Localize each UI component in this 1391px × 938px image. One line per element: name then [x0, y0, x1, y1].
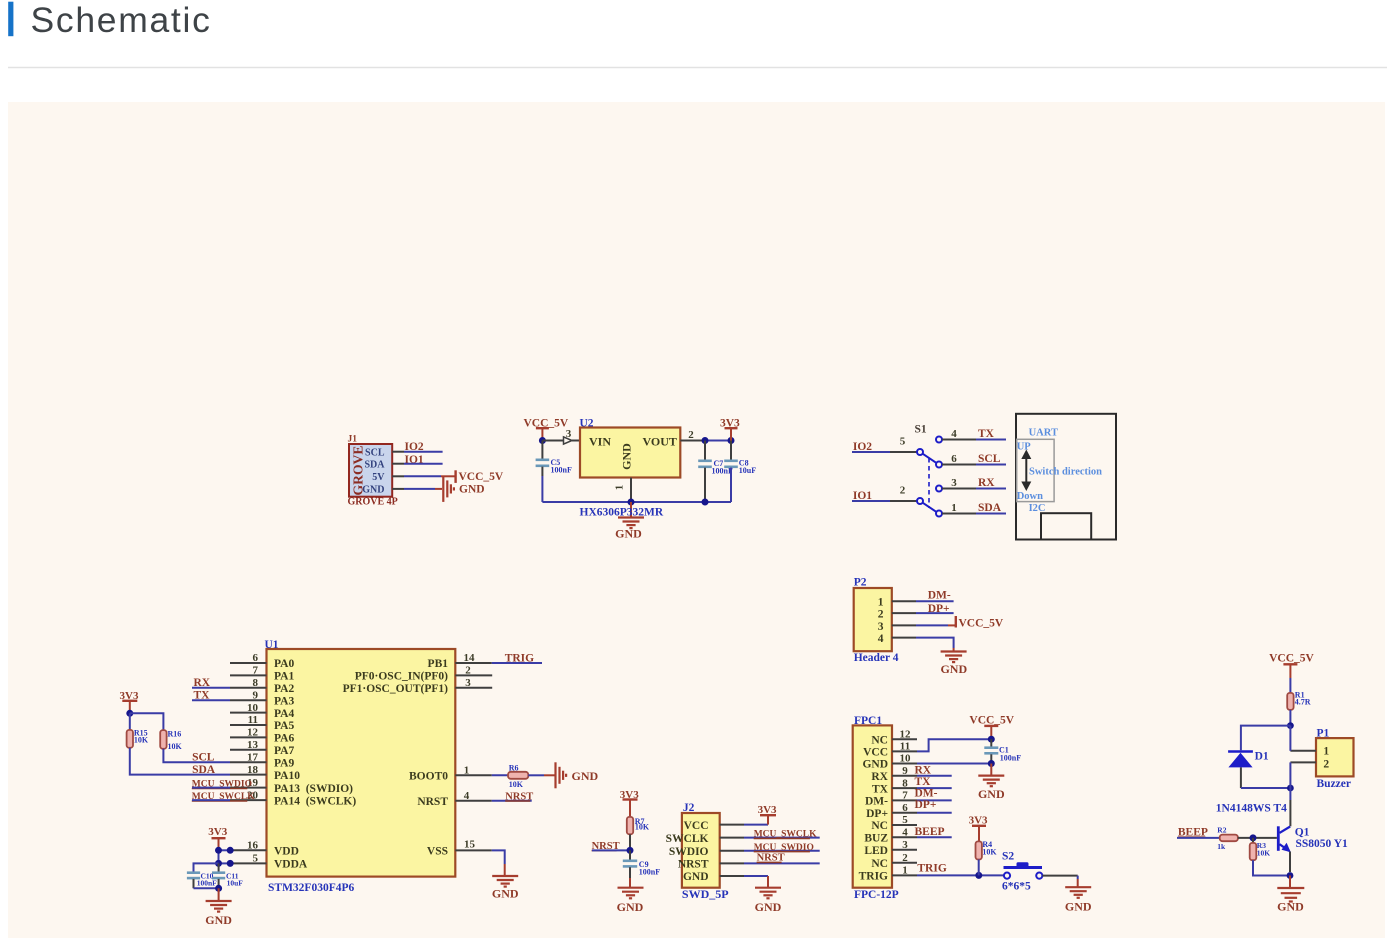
wire net TX — [192, 699, 230, 701]
wire collector node to Q1 — [1289, 788, 1291, 800]
svg-text:12: 12 — [247, 727, 259, 739]
wire net TRIG at FPC1 — [917, 874, 1004, 876]
svg-text:3V3: 3V3 — [208, 826, 227, 838]
connector J2 body — [682, 813, 720, 888]
svg-text:DM-: DM- — [865, 796, 888, 808]
wire S1 pin 3 net RX — [942, 488, 976, 490]
S1 contact pin 3 — [936, 486, 942, 492]
pushbutton S2 — [1004, 873, 1010, 879]
connector J1 GROVE body — [349, 444, 392, 497]
svg-text:VCC_5V: VCC_5V — [459, 471, 504, 483]
wire net IO2 — [404, 451, 443, 453]
svg-text:GND: GND — [683, 871, 709, 883]
svg-text:R2: R2 — [1217, 825, 1226, 834]
S1 package outline box — [1016, 414, 1116, 540]
wire R4 to TRIG — [978, 860, 980, 876]
svg-text:15: 15 — [464, 839, 476, 851]
wire net NRST at J2 — [744, 862, 820, 864]
svg-text:UP: UP — [1017, 441, 1032, 452]
svg-text:PA9: PA9 — [274, 757, 294, 769]
svg-text:RX: RX — [915, 765, 932, 777]
svg-text:SWDIO: SWDIO — [669, 846, 709, 858]
svg-text:LED: LED — [864, 845, 888, 857]
svg-text:Down: Down — [1017, 491, 1043, 502]
FPC1 pin stubs — [892, 738, 917, 740]
wire net MCU_SWDIO — [192, 787, 230, 789]
S1 contact pin 1 — [936, 511, 942, 517]
wire capacitor ground junction — [194, 887, 219, 889]
wire P2 pin 4 to GND — [916, 638, 954, 648]
wire net DP+ at FPC1 — [917, 812, 952, 814]
svg-text:PF0·OSC_IN(PF0): PF0·OSC_IN(PF0) — [355, 671, 448, 683]
svg-text:10: 10 — [900, 753, 912, 765]
junction node C7 rail — [702, 499, 709, 506]
svg-text:VCC: VCC — [684, 820, 709, 832]
wire VDDA branch to C10 — [194, 863, 219, 871]
svg-text:10: 10 — [247, 702, 259, 714]
wire VCC_5V to R1 — [1289, 678, 1291, 693]
wire net TRIG at U1 — [492, 662, 542, 664]
junction node VCC_5V C1 — [988, 736, 995, 743]
U2 pin 2 lead — [680, 440, 705, 442]
resistor R4 — [976, 841, 982, 859]
wire Q1 emitter — [1289, 852, 1291, 873]
svg-text:DM-: DM- — [928, 589, 951, 601]
wire J1 5V to VCC_5V — [404, 475, 441, 477]
wire net BEEP at FPC1 — [917, 836, 952, 838]
svg-text:Q1: Q1 — [1295, 826, 1310, 838]
power port VCC_5V at P2 — [955, 616, 957, 628]
svg-text:GND: GND — [459, 484, 485, 496]
svg-text:PF1·OSC_OUT(PF1): PF1·OSC_OUT(PF1) — [343, 683, 449, 695]
svg-text:9: 9 — [253, 689, 259, 701]
svg-text:10K: 10K — [509, 780, 524, 789]
svg-text:J1: J1 — [348, 435, 358, 445]
svg-text:3: 3 — [902, 839, 908, 851]
wire R6 to ground — [528, 774, 544, 776]
svg-text:GND: GND — [617, 900, 644, 914]
capacitor C7 — [704, 441, 706, 460]
svg-text:7: 7 — [902, 790, 908, 802]
svg-text:5V: 5V — [372, 472, 385, 483]
ground symbol below C11 — [218, 888, 220, 901]
svg-text:SCL: SCL — [978, 453, 1001, 465]
svg-text:VSS: VSS — [427, 846, 448, 858]
S1 contact pin 6 — [936, 462, 942, 468]
svg-text:5: 5 — [902, 814, 908, 826]
svg-text:1: 1 — [951, 502, 957, 514]
svg-text:PA0: PA0 — [274, 658, 294, 670]
junction node VCC_5V / C5 — [539, 437, 546, 444]
svg-text:10K: 10K — [1257, 848, 1271, 857]
wire net RX — [192, 687, 230, 689]
wire S1 pin 4 net TX — [942, 439, 976, 441]
ground symbol at S2 — [1065, 887, 1091, 898]
svg-text:PA10: PA10 — [274, 770, 300, 782]
svg-text:DP+: DP+ — [866, 808, 888, 820]
resistor R6 — [508, 772, 528, 779]
svg-text:4: 4 — [902, 827, 908, 839]
svg-text:TX: TX — [915, 776, 932, 788]
resistor R16 — [160, 730, 166, 749]
svg-text:RX: RX — [978, 477, 995, 489]
capacitor C1 — [990, 739, 992, 747]
svg-text:PA13 (SWDIO): PA13 (SWDIO) — [274, 783, 353, 795]
svg-text:6*6*5: 6*6*5 — [1002, 881, 1031, 893]
svg-text:FPC-12P: FPC-12P — [854, 889, 899, 901]
svg-text:13: 13 — [247, 739, 259, 751]
svg-text:2: 2 — [902, 852, 908, 864]
svg-text:1k: 1k — [1217, 842, 1226, 851]
FPC1 pin names — [859, 734, 889, 882]
svg-text:PA4: PA4 — [274, 708, 294, 720]
svg-text:11: 11 — [900, 741, 910, 753]
wire node to D1 cathode — [1241, 726, 1291, 751]
svg-text:2: 2 — [900, 484, 906, 496]
junction node C10 C11 ground — [215, 885, 222, 892]
svg-text:GND: GND — [940, 662, 967, 676]
ground symbol at VSS — [492, 876, 518, 887]
connector P1 body — [1316, 738, 1354, 776]
resistor R1 — [1287, 693, 1293, 710]
wire net DP+ at P2 — [916, 612, 954, 614]
svg-text:2: 2 — [688, 429, 694, 441]
resistor R2 — [1220, 835, 1238, 842]
svg-text:2: 2 — [1323, 758, 1329, 770]
power port VCC_5V at J1 — [454, 470, 456, 483]
svg-text:TRIG: TRIG — [917, 863, 946, 875]
svg-text:GND: GND — [1277, 900, 1304, 914]
svg-text:100nF: 100nF — [1000, 753, 1021, 762]
svg-text:TX: TX — [978, 428, 995, 440]
wire S2 to ground — [1042, 875, 1077, 877]
svg-text:Buzzer: Buzzer — [1317, 778, 1351, 790]
U1 pin 2 stub — [455, 674, 492, 676]
wire J2 VCC to 3V3 — [744, 824, 768, 826]
svg-text:HX6306P332MR: HX6306P332MR — [580, 507, 664, 519]
svg-text:TRIG: TRIG — [505, 652, 534, 664]
capacitor C11 — [218, 863, 220, 871]
svg-text:SS8050 Y1: SS8050 Y1 — [1296, 838, 1349, 850]
wire S1 pin 6 net SCL — [942, 464, 976, 466]
S1 direction arrow — [1025, 453, 1027, 488]
svg-text:Schematic: Schematic — [31, 0, 212, 40]
wire net RX at FPC1 — [917, 775, 952, 777]
junction node U2 GND rail — [628, 499, 635, 506]
U1 right pin names — [343, 658, 449, 857]
wire FPC1 GND to ground rail — [917, 763, 991, 765]
svg-text:8: 8 — [253, 677, 259, 689]
S1 arm 2-1 — [923, 503, 937, 512]
svg-text:SWCLK: SWCLK — [666, 833, 709, 845]
svg-text:PA7: PA7 — [274, 745, 294, 757]
resistor R15 — [129, 713, 131, 730]
svg-text:7: 7 — [253, 665, 259, 677]
svg-text:PA14 (SWCLK): PA14 (SWCLK) — [274, 795, 356, 807]
divider line — [8, 67, 1387, 69]
svg-text:GND: GND — [492, 887, 519, 901]
svg-text:10K: 10K — [982, 848, 997, 857]
P1 pin 1 stub — [1290, 750, 1316, 752]
U2 pin 1 lead — [630, 478, 632, 502]
junction node NRST — [627, 847, 634, 854]
wire VSS to ground — [492, 850, 505, 864]
U1 left pin names — [274, 658, 356, 870]
svg-text:10K: 10K — [635, 822, 650, 831]
junction node 3V3 pullups — [126, 710, 133, 717]
svg-text:9: 9 — [902, 765, 908, 777]
svg-text:VCC_5V: VCC_5V — [959, 618, 1004, 630]
svg-text:6: 6 — [253, 652, 259, 664]
wire J1 GND — [404, 488, 435, 490]
wire net IO1 — [404, 463, 443, 465]
P2 pin stubs — [892, 600, 916, 602]
svg-text:PA5: PA5 — [274, 720, 294, 732]
resistor R3 — [1252, 838, 1254, 843]
svg-text:GND: GND — [1065, 899, 1092, 913]
junction node VOUT / C8 / 3V3 — [728, 437, 735, 444]
wire S1 pin 1 net SDA — [942, 513, 976, 515]
svg-text:RX: RX — [871, 771, 888, 783]
U1 left pin numbers — [247, 652, 259, 864]
svg-text:3: 3 — [951, 477, 957, 489]
S1 contact pin 5 — [917, 449, 923, 455]
svg-text:100nF: 100nF — [551, 466, 572, 475]
S1 contact pin 4 — [936, 437, 942, 443]
svg-text:BEEP: BEEP — [915, 826, 945, 838]
svg-text:NC: NC — [871, 820, 888, 832]
svg-text:VCC_5V: VCC_5V — [1269, 653, 1314, 665]
wire R3 to emitter — [1253, 860, 1290, 875]
wire R15 to net SDA — [130, 748, 230, 775]
transistor Q1 — [1277, 826, 1280, 851]
svg-text:GND: GND — [362, 485, 384, 496]
svg-text:NC: NC — [871, 734, 888, 746]
wire P2 pin 3 to VCC_5V — [916, 624, 948, 626]
MCU U1 body — [267, 649, 456, 877]
resistor R7 — [627, 817, 633, 834]
svg-text:11: 11 — [248, 714, 258, 726]
capacitor C5 — [541, 441, 543, 459]
svg-text:4: 4 — [878, 633, 884, 645]
wire BOOT0 to R6 — [492, 774, 508, 776]
wire U2 VOUT to 3V3 — [705, 440, 731, 442]
svg-text:5: 5 — [900, 435, 906, 447]
svg-text:VDDA: VDDA — [274, 859, 308, 871]
svg-text:GROVE 4P: GROVE 4P — [348, 497, 398, 508]
svg-text:UART: UART — [1029, 427, 1058, 438]
svg-text:PA3: PA3 — [274, 695, 294, 707]
svg-text:VIN: VIN — [589, 435, 611, 449]
wire U2 ground rail — [541, 476, 543, 502]
wire R7 to NRST node — [629, 834, 631, 850]
svg-text:D1: D1 — [1255, 751, 1269, 763]
wire R2 to Q1 base — [1238, 837, 1277, 839]
svg-text:1: 1 — [1323, 746, 1329, 758]
wire VCC_5V to U2 VIN — [542, 440, 563, 442]
ground symbol at J2 — [755, 888, 781, 899]
wire net DM- at P2 — [916, 600, 954, 602]
header P2 body — [854, 588, 892, 651]
svg-text:NRST: NRST — [417, 796, 448, 808]
svg-text:GND: GND — [572, 769, 599, 783]
svg-text:R16: R16 — [168, 729, 182, 738]
svg-text:6: 6 — [902, 802, 908, 814]
wire P1 pin 2 to collector node — [1289, 762, 1291, 788]
S1 gang link dashed — [928, 458, 930, 508]
J2 pin names — [666, 820, 709, 883]
wire net IO2 to S1 pin 5 — [852, 451, 890, 453]
svg-text:S1: S1 — [915, 423, 927, 435]
ground symbol at C1 — [990, 764, 992, 776]
J2 pin stubs — [720, 824, 744, 826]
svg-text:VOUT: VOUT — [643, 435, 677, 449]
svg-text:GND: GND — [205, 913, 232, 927]
capacitor C8 — [730, 441, 732, 460]
svg-text:10K: 10K — [168, 742, 183, 751]
svg-text:18: 18 — [247, 764, 259, 776]
svg-text:8: 8 — [902, 777, 908, 789]
svg-text:Header 4: Header 4 — [854, 652, 899, 664]
U2 pin 3 arrow — [564, 437, 573, 444]
svg-text:VCC: VCC — [863, 747, 888, 759]
wire net NRST at U1 — [492, 800, 532, 802]
svg-text:1N4148WS T4: 1N4148WS T4 — [1216, 802, 1287, 814]
wire R16 to net SCL — [163, 749, 230, 762]
svg-text:BUZ: BUZ — [864, 833, 888, 845]
svg-text:STM32F030F4P6: STM32F030F4P6 — [268, 882, 354, 894]
wire D1 anode to collector node — [1241, 787, 1291, 789]
svg-text:100nF: 100nF — [197, 879, 217, 888]
S1 contact pin 2 — [917, 498, 923, 504]
ground symbol below U2 — [630, 502, 632, 517]
FPC1 pin numbers — [900, 728, 912, 876]
svg-text:NC: NC — [871, 858, 888, 870]
svg-text:10uF: 10uF — [739, 466, 756, 475]
junction node D1 collector — [1287, 785, 1294, 792]
ground symbol at J1 — [443, 476, 454, 502]
wire R1 to node — [1289, 710, 1291, 726]
wire net MCU_SWCLK at J2 — [744, 837, 820, 839]
svg-text:GND: GND — [978, 787, 1005, 801]
ground symbol at Q1 — [1289, 876, 1291, 888]
svg-text:VDD: VDD — [274, 846, 299, 858]
page title bar — [8, 2, 13, 37]
svg-text:100nF: 100nF — [639, 867, 660, 876]
S1 arm 5-6 — [923, 454, 937, 463]
svg-text:GND: GND — [755, 900, 782, 914]
capacitor C10 — [187, 871, 200, 874]
U1 pin 1 stub BOOT0 — [455, 774, 492, 776]
U1 pin 3 stub — [455, 687, 492, 689]
svg-text:SCL: SCL — [365, 447, 385, 458]
svg-text:2: 2 — [878, 609, 884, 621]
svg-text:16: 16 — [247, 840, 259, 852]
svg-text:S2: S2 — [1002, 850, 1014, 862]
svg-text:17: 17 — [247, 751, 259, 763]
U1 left pin stubs — [230, 662, 267, 664]
svg-text:SDA: SDA — [978, 502, 1002, 514]
svg-text:PA2: PA2 — [274, 683, 294, 695]
svg-text:SWD_5P: SWD_5P — [682, 887, 729, 901]
svg-text:1: 1 — [902, 865, 908, 877]
junction node emitter ground — [1287, 872, 1294, 879]
svg-text:PA1: PA1 — [274, 671, 294, 683]
wire net MCU_SWDIO at J2 — [744, 850, 820, 852]
svg-text:4: 4 — [951, 428, 957, 440]
U1 pin 15 stub VSS — [455, 849, 492, 851]
junction node R2 R3 base — [1250, 834, 1257, 841]
svg-text:4.7R: 4.7R — [1295, 697, 1311, 706]
ground symbol at P2 — [941, 652, 967, 663]
svg-text:PA6: PA6 — [274, 733, 294, 745]
wire 3V3 to R16 — [130, 713, 164, 730]
svg-text:1: 1 — [878, 596, 884, 608]
svg-text:SDA: SDA — [364, 459, 385, 470]
wire net IO1 to S1 pin 2 — [852, 500, 890, 502]
svg-text:TX: TX — [872, 783, 889, 795]
P1 pin 2 stub — [1290, 761, 1316, 763]
wire FPC1 VCC to VCC_5V — [917, 739, 991, 751]
svg-text:BOOT0: BOOT0 — [409, 771, 448, 783]
wire 3V3 to VDD VDDA — [219, 849, 234, 851]
svg-text:TRIG: TRIG — [859, 871, 888, 883]
svg-text:6: 6 — [951, 453, 957, 465]
wire net TX at FPC1 — [917, 787, 952, 789]
svg-text:P2: P2 — [854, 577, 867, 589]
ground symbol at C9 — [618, 888, 644, 899]
svg-text:R6: R6 — [509, 763, 519, 772]
svg-text:PB1: PB1 — [428, 658, 449, 670]
svg-text:SCL: SCL — [192, 752, 215, 764]
junction node VOUT / C7 — [702, 437, 709, 444]
ground symbol at R6 — [556, 762, 567, 788]
wire net MCU_SWCLK — [192, 799, 230, 801]
S1 package knob — [1041, 513, 1091, 539]
svg-text:GND: GND — [615, 526, 642, 540]
wire net DM- at FPC1 — [917, 799, 952, 801]
wire J2 GND to ground — [744, 875, 768, 877]
S1 package inner slide area — [1017, 439, 1054, 501]
svg-text:1: 1 — [614, 485, 626, 491]
connector FPC1 body — [853, 725, 892, 887]
capacitor C9 — [629, 850, 631, 859]
U1 pin 14 stub — [455, 662, 492, 664]
svg-text:DM-: DM- — [915, 788, 938, 800]
wire net NRST to node — [592, 849, 630, 851]
diode D1 — [1228, 750, 1253, 753]
svg-text:GND: GND — [862, 759, 888, 771]
regulator U2 body — [580, 428, 680, 478]
U1 pin 4 stub NRST — [455, 800, 492, 802]
svg-text:GND: GND — [620, 443, 634, 470]
svg-text:SDA: SDA — [192, 764, 216, 776]
svg-text:NRST: NRST — [678, 859, 709, 871]
svg-text:5: 5 — [253, 853, 259, 865]
svg-text:12: 12 — [900, 728, 912, 740]
svg-text:3: 3 — [878, 621, 884, 633]
junction nodes at VDD VDDA — [215, 847, 222, 854]
junction node R1 buzzer — [1287, 722, 1294, 729]
svg-text:10uF: 10uF — [227, 879, 244, 888]
wire net BEEP to R2 — [1177, 837, 1220, 839]
svg-text:DP+: DP+ — [915, 799, 937, 811]
J1 pin stubs — [392, 451, 404, 453]
svg-text:Switch direction: Switch direction — [1029, 466, 1102, 477]
junction node C1 GND — [988, 760, 995, 767]
junction node TRIG R4 — [975, 872, 982, 879]
svg-text:10K: 10K — [134, 736, 149, 745]
